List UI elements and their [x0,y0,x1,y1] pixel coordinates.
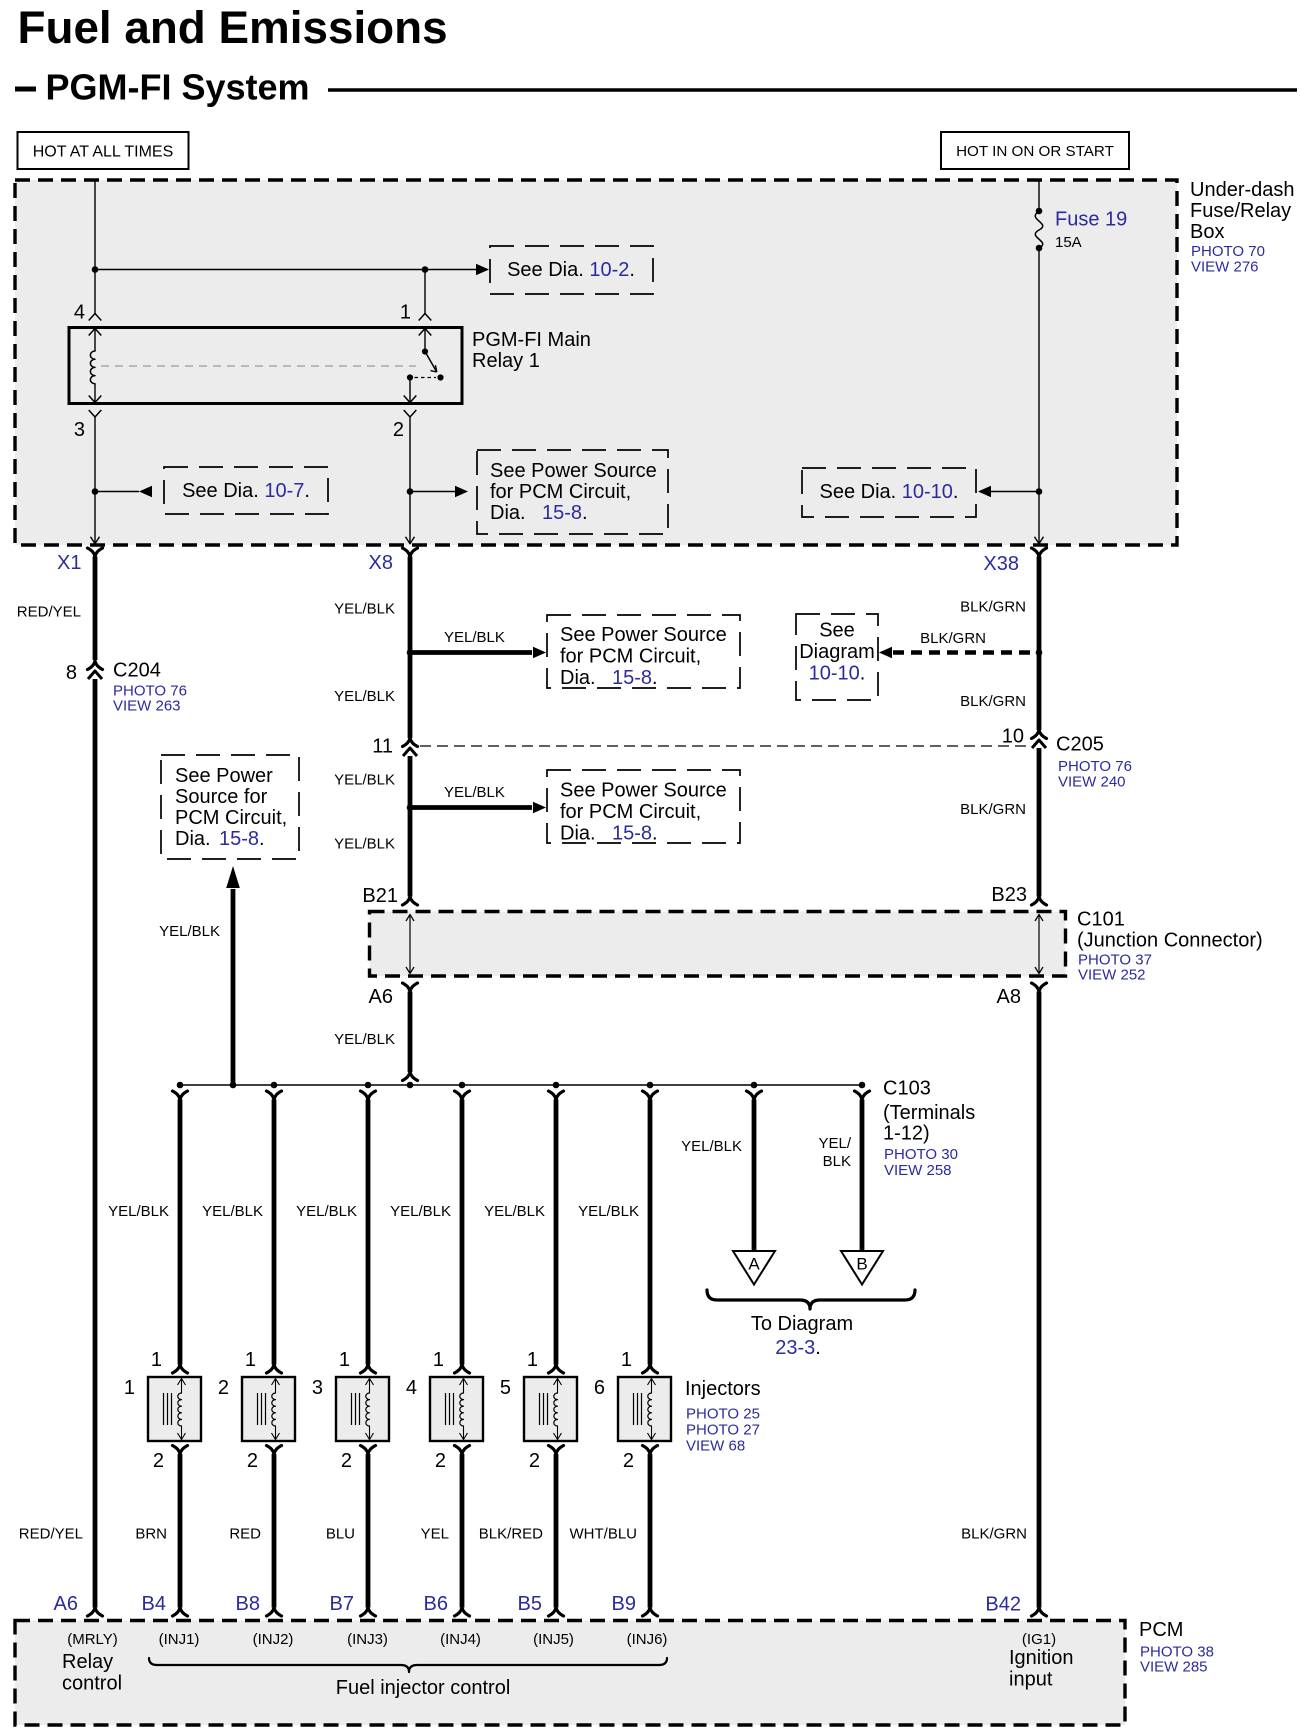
svg-text:15A: 15A [1055,234,1082,251]
svg-text:B5: B5 [518,1593,542,1615]
svg-text:A8: A8 [997,986,1021,1008]
svg-text:PHOTO 30: PHOTO 30 [884,1146,958,1163]
svg-text:15-8.: 15-8. [612,667,658,689]
svg-text:15-8.: 15-8. [612,823,658,845]
svg-text:PGM-FI System: PGM-FI System [46,67,310,108]
svg-text:(INJ3): (INJ3) [347,1631,388,1648]
svg-text:11: 11 [372,736,393,758]
svg-text:1: 1 [339,1349,350,1371]
svg-text:2: 2 [341,1450,352,1472]
svg-text:YEL/: YEL/ [818,1135,851,1152]
svg-text:C101: C101 [1077,909,1125,931]
svg-text:YEL/BLK: YEL/BLK [334,772,395,789]
svg-text:See Power: See Power [175,765,273,787]
svg-text:B21: B21 [362,885,398,907]
svg-text:6: 6 [594,1377,605,1399]
svg-text:2: 2 [529,1450,540,1472]
svg-text:1: 1 [124,1377,135,1399]
svg-text:See Dia. 10-7.: See Dia. 10-7. [182,480,310,502]
svg-text:X38: X38 [983,553,1019,575]
svg-text:HOT AT ALL TIMES: HOT AT ALL TIMES [33,144,174,161]
svg-text:15-8.: 15-8. [219,828,265,850]
svg-text:Ignition: Ignition [1009,1647,1074,1669]
svg-text:(Junction Connector): (Junction Connector) [1077,930,1263,952]
svg-text:4: 4 [406,1377,417,1399]
svg-text:YEL/BLK: YEL/BLK [578,1203,639,1220]
svg-text:2: 2 [393,419,404,441]
svg-text:Dia.: Dia. [175,828,211,850]
svg-text:To Diagram: To Diagram [751,1313,853,1335]
svg-text:PHOTO 70: PHOTO 70 [1191,243,1265,260]
svg-text:3: 3 [312,1377,323,1399]
svg-text:See: See [819,620,855,642]
svg-text:VIEW 276: VIEW 276 [1191,259,1259,276]
svg-text:B8: B8 [236,1593,260,1615]
svg-text:BLK/GRN: BLK/GRN [960,693,1026,710]
svg-text:B6: B6 [424,1593,448,1615]
svg-text:See Power Source: See Power Source [560,780,727,802]
svg-text:RED: RED [229,1526,261,1543]
svg-text:BRN: BRN [135,1526,167,1543]
svg-text:for PCM Circuit,: for PCM Circuit, [490,481,631,503]
svg-text:5: 5 [500,1377,511,1399]
svg-text:B: B [856,1255,867,1274]
svg-text:See Dia. 10-2.: See Dia. 10-2. [507,259,635,281]
svg-text:1-12): 1-12) [883,1123,930,1145]
svg-text:Fuse/Relay: Fuse/Relay [1190,200,1291,222]
svg-text:control: control [62,1673,122,1695]
svg-text:1: 1 [433,1349,444,1371]
svg-text:C103: C103 [883,1078,931,1100]
svg-text:PCM: PCM [1139,1619,1183,1641]
svg-text:Dia.: Dia. [560,667,596,689]
svg-text:See Dia. 10-10.: See Dia. 10-10. [820,481,959,503]
svg-text:BLK/GRN: BLK/GRN [920,630,986,647]
svg-text:2: 2 [218,1377,229,1399]
svg-text:X1: X1 [57,552,81,574]
svg-text:PGM-FI Main: PGM-FI Main [472,329,591,351]
svg-text:PHOTO 25: PHOTO 25 [686,1406,760,1423]
svg-text:(IG1): (IG1) [1022,1631,1056,1648]
svg-text:VIEW 68: VIEW 68 [686,1438,745,1455]
svg-text:YEL/BLK: YEL/BLK [334,836,395,853]
svg-text:YEL/BLK: YEL/BLK [681,1138,742,1155]
svg-text:1: 1 [245,1349,256,1371]
svg-text:VIEW 285: VIEW 285 [1140,1659,1208,1676]
svg-text:Injectors: Injectors [685,1378,761,1400]
svg-text:YEL/BLK: YEL/BLK [108,1203,169,1220]
svg-text:B23: B23 [991,884,1027,906]
svg-text:B9: B9 [612,1593,636,1615]
svg-text:YEL/BLK: YEL/BLK [334,1031,395,1048]
svg-text:for PCM Circuit,: for PCM Circuit, [560,801,701,823]
svg-text:PHOTO 27: PHOTO 27 [686,1422,760,1439]
svg-text:(INJ4): (INJ4) [440,1631,481,1648]
svg-text:(INJ2): (INJ2) [253,1631,294,1648]
svg-text:VIEW 258: VIEW 258 [884,1162,952,1179]
svg-text:2: 2 [153,1450,164,1472]
svg-text:RED/YEL: RED/YEL [17,604,81,621]
svg-text:(INJ1): (INJ1) [159,1631,200,1648]
svg-text:RED/YEL: RED/YEL [19,1526,83,1543]
svg-text:(MRLY): (MRLY) [67,1631,118,1648]
svg-text:10-10.: 10-10. [809,663,866,685]
svg-text:VIEW 263: VIEW 263 [113,698,181,715]
svg-text:input: input [1009,1669,1053,1691]
svg-text:Dia.: Dia. [490,502,526,524]
svg-text:1: 1 [151,1349,162,1371]
svg-text:Box: Box [1190,221,1224,243]
svg-text:A6: A6 [369,986,393,1008]
svg-text:Fuel and Emissions: Fuel and Emissions [18,2,448,53]
svg-text:Source for: Source for [175,786,268,808]
svg-text:for PCM Circuit,: for PCM Circuit, [560,646,701,668]
svg-text:4: 4 [74,302,85,324]
svg-text:BLK/RED: BLK/RED [479,1526,543,1543]
svg-text:8: 8 [66,662,77,684]
svg-text:Relay: Relay [62,1651,113,1673]
svg-text:YEL/BLK: YEL/BLK [296,1203,357,1220]
svg-text:Fuel injector control: Fuel injector control [336,1677,511,1699]
svg-text:Relay 1: Relay 1 [472,350,540,372]
svg-text:YEL/BLK: YEL/BLK [444,784,505,801]
svg-text:15-8.: 15-8. [542,502,588,524]
svg-text:2: 2 [247,1450,258,1472]
svg-text:B42: B42 [985,1594,1021,1616]
svg-text:YEL/BLK: YEL/BLK [484,1203,545,1220]
svg-text:Diagram: Diagram [799,641,875,663]
svg-text:1: 1 [527,1349,538,1371]
svg-text:A6: A6 [54,1593,78,1615]
svg-text:Fuse 19: Fuse 19 [1055,209,1127,231]
svg-text:See Power Source: See Power Source [560,624,727,646]
svg-text:YEL/BLK: YEL/BLK [390,1203,451,1220]
svg-text:HOT IN ON OR START: HOT IN ON OR START [956,143,1114,160]
svg-text:PHOTO 76: PHOTO 76 [1058,758,1132,775]
svg-text:2: 2 [435,1450,446,1472]
svg-text:10: 10 [1002,726,1024,748]
svg-text:1: 1 [621,1349,632,1371]
svg-text:1: 1 [400,302,411,324]
svg-text:B4: B4 [142,1593,166,1615]
svg-text:WHT/BLU: WHT/BLU [570,1526,638,1543]
svg-text:YEL/BLK: YEL/BLK [334,601,395,618]
svg-text:(INJ6): (INJ6) [627,1631,668,1648]
svg-text:C204: C204 [113,660,161,682]
svg-text:23-3.: 23-3. [775,1337,821,1359]
svg-text:Under-dash: Under-dash [1190,179,1295,201]
svg-text:YEL/BLK: YEL/BLK [444,629,505,646]
svg-text:2: 2 [623,1450,634,1472]
svg-text:BLU: BLU [326,1526,355,1543]
svg-text:(Terminals: (Terminals [883,1102,975,1124]
svg-text:BLK/GRN: BLK/GRN [961,1526,1027,1543]
svg-text:YEL: YEL [421,1526,449,1543]
svg-text:C205: C205 [1056,734,1104,756]
svg-text:A: A [748,1255,760,1274]
svg-text:PCM Circuit,: PCM Circuit, [175,807,287,829]
svg-text:YEL/BLK: YEL/BLK [202,1203,263,1220]
svg-text:YEL/BLK: YEL/BLK [334,688,395,705]
svg-text:YEL/BLK: YEL/BLK [159,923,220,940]
svg-text:B7: B7 [330,1593,354,1615]
svg-text:See Power Source: See Power Source [490,460,657,482]
svg-text:VIEW 240: VIEW 240 [1058,774,1126,791]
svg-text:X8: X8 [369,552,393,574]
svg-text:BLK/GRN: BLK/GRN [960,801,1026,818]
svg-text:VIEW 252: VIEW 252 [1078,967,1146,984]
svg-text:Dia.: Dia. [560,823,596,845]
svg-text:(INJ5): (INJ5) [533,1631,574,1648]
svg-text:BLK/GRN: BLK/GRN [960,599,1026,616]
svg-text:BLK: BLK [823,1153,851,1170]
svg-text:3: 3 [74,419,85,441]
